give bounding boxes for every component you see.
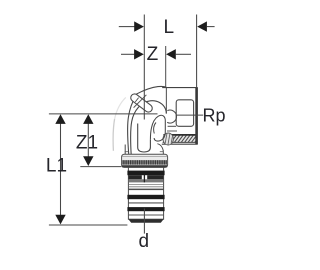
flange dark bottom band — [122, 165, 167, 167]
bore U shape — [138, 124, 151, 153]
tube outer-left wall — [128, 97, 136, 155]
thread bore rounded rect — [176, 100, 193, 127]
Z1 dimension line + arrows — [87, 116, 89, 164]
svg-text:L: L — [164, 17, 175, 38]
press sleeve outline — [128, 167, 163, 219]
flange — [122, 154, 168, 167]
stub end cap line — [135, 98, 138, 102]
Z dimension line + arrows — [121, 53, 134, 55]
socket body white — [163, 88, 198, 145]
Z extension line into socket — [165, 46, 167, 88]
mouth bottom hatched ellipse — [163, 132, 173, 146]
indicator center slot line — [143, 175, 145, 183]
neck step tick left — [125, 151, 129, 153]
svg-text:Z: Z — [147, 44, 159, 65]
centerline vertical (extension of d axis) — [143, 15, 145, 120]
tube inner-left wall — [131, 101, 167, 156]
arc crossing stub — [134, 95, 147, 108]
svg-text:d: d — [139, 231, 150, 252]
dome (tube top) — [136, 86, 166, 94]
socket mouth circle (right arc) — [167, 110, 176, 123]
L dimension line + arrows — [119, 26, 135, 28]
neck step tick right — [160, 151, 164, 153]
L1 dimension line + arrows — [60, 116, 62, 223]
Z1 bottom ref line H2 — [80, 166, 121, 168]
L1 bottom ref line H3 — [49, 224, 128, 226]
faint outer silhouette of elbow — [113, 119, 115, 151]
right extension line V2 — [196, 15, 198, 88]
svg-text:Rp: Rp — [203, 105, 226, 125]
axis line H1 — [49, 113, 158, 115]
socket right face (thick) — [195, 88, 198, 145]
neck-to-mouth connector — [157, 144, 163, 151]
bore bottom extension line — [168, 125, 177, 127]
indicator gray band — [129, 179, 164, 182]
thread hatch band — [160, 134, 201, 144]
neck left line — [124, 145, 126, 156]
o-ring band 3 — [127, 207, 164, 211]
o-ring band 1 — [127, 171, 164, 176]
d leader line — [143, 209, 145, 234]
indicator blocks — [129, 175, 142, 179]
sleeve bottom chamfer — [128, 219, 163, 223]
shelf line above hatch — [167, 130, 177, 132]
socket joint line — [165, 88, 167, 114]
svg-text:Z1: Z1 — [76, 132, 98, 153]
stub (diagonal cylinder) — [129, 92, 154, 113]
sleeve thin lines — [129, 184, 163, 186]
inner curl — [150, 115, 165, 141]
o-ring band 2 — [127, 195, 164, 199]
svg-text:L1: L1 — [46, 156, 67, 177]
inner spiral arc — [154, 123, 156, 134]
neck right line — [162, 151, 164, 156]
flange knurl band — [122, 160, 167, 164]
socket bottom edge — [162, 143, 198, 145]
socket top edge — [162, 87, 198, 89]
Rp leader — [176, 114, 203, 116]
